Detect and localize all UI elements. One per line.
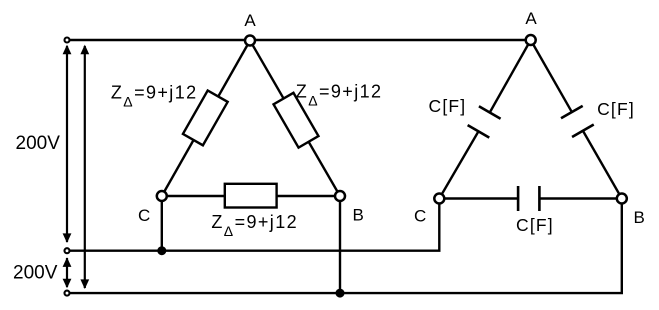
node C right triangle: [434, 194, 444, 204]
svg-text:A: A: [244, 11, 256, 30]
svg-text:C[F]: C[F]: [429, 96, 467, 116]
wire edge C-B right triangle right: [539, 197, 621, 199]
node B right triangle: [617, 194, 627, 204]
wire edge C-B left triangle: [162, 195, 340, 197]
voltage arrow full-span shaft: [84, 46, 86, 288]
svg-text:A: A: [525, 9, 537, 28]
svg-text:C[F]: C[F]: [516, 215, 554, 235]
arrowhead up full-span: [80, 45, 89, 55]
wire C stub down: [161, 196, 163, 251]
arrowhead down at bottom terminal: [63, 279, 72, 289]
arrowhead up below middle terminal: [63, 257, 72, 267]
svg-text:C[F]: C[F]: [597, 99, 635, 119]
terminal bottom left: [65, 291, 70, 296]
junction dot C to middle bus: [157, 246, 166, 255]
arrowhead down at middle terminal: [63, 233, 72, 243]
wire bottom bus to right B: [67, 199, 622, 294]
wire edge C-B right triangle left: [439, 197, 518, 199]
voltage arrow top-middle shaft: [67, 46, 85, 288]
arrowhead down full-span: [80, 279, 89, 289]
svg-text:200V: 200V: [13, 263, 58, 284]
resistor Z right (A-B): [274, 93, 319, 148]
resistor Z bottom (C-B): [225, 184, 277, 208]
capacitor C right (A-B) plate 1: [561, 106, 583, 118]
svg-text:200V: 200V: [16, 133, 61, 154]
svg-text:B: B: [634, 208, 645, 227]
wire middle bus to right C: [67, 199, 439, 251]
wire edge A-B left triangle: [250, 41, 340, 197]
terminal top left: [65, 38, 70, 43]
terminal middle left: [65, 248, 70, 253]
wire edge A-C left triangle: [162, 41, 250, 197]
voltage arrow middle-bottom shaft: [66, 258, 68, 287]
wire B stub down: [339, 196, 341, 293]
svg-text:B: B: [353, 206, 364, 225]
wire edge A-C right triangle upper: [490, 40, 531, 113]
svg-text:C: C: [138, 206, 150, 225]
svg-text:C: C: [414, 206, 426, 225]
capacitor C right (A-B) plate 2: [572, 125, 594, 137]
junction dot B to bottom bus: [336, 289, 345, 298]
wire edge A-B right triangle upper: [531, 40, 572, 112]
capacitor C left (A-C) plate 2: [468, 125, 490, 138]
capacitor C left (A-C) plate 1: [479, 106, 501, 119]
node C left triangle: [157, 191, 167, 201]
node A left triangle: [245, 36, 255, 46]
arrowhead up at top terminal: [63, 45, 72, 55]
resistor Z left (A-C): [183, 90, 228, 145]
wire edge A-B right triangle lower: [583, 131, 622, 199]
node A right triangle: [526, 35, 536, 45]
wire top bus A: [67, 39, 531, 41]
node B left triangle: [335, 191, 345, 201]
wire edge A-C right triangle lower: [439, 131, 478, 198]
capacitor C bottom (C-B) plate 2: [538, 186, 541, 211]
capacitor C bottom (C-B) plate 1: [517, 186, 520, 211]
